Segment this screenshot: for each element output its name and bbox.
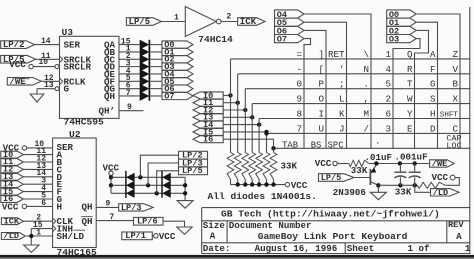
tag O6 (column driver): [275, 26, 305, 36]
power VCC at clamp diodes: [103, 162, 120, 193]
svg-text:VCC: VCC: [291, 180, 308, 191]
svg-text:U2: U2: [69, 129, 81, 140]
label box LP/2: [179, 151, 208, 161]
svg-text:LOC: LOC: [446, 141, 461, 151]
svg-text:3: 3: [385, 123, 391, 134]
label 33K for R8: [351, 165, 368, 176]
svg-text:I6: I6: [203, 135, 213, 145]
junction I4 on vertical: [257, 122, 261, 126]
wire clamp row 3: [111, 192, 185, 194]
svg-text:SHFT: SHFT: [440, 112, 459, 120]
wire U2 /QH pin 7: [96, 213, 133, 222]
resistor R4 33K pull-up: [249, 153, 256, 185]
svg-text:TAB: TAB: [282, 140, 298, 150]
svg-text:N: N: [363, 64, 369, 75]
wire tap to LP/2 box: [140, 155, 178, 177]
tag I3 (U2 input D): [1, 172, 24, 182]
power VCC at U3 SRCLR: [9, 59, 33, 70]
tag I1 (U2 input B): [1, 157, 24, 167]
junction clamp VCC row1: [109, 175, 113, 179]
svg-text:R: R: [407, 64, 413, 75]
wire I2 to pin 13: [23, 162, 52, 171]
wire U3 QE pin 4: [119, 67, 141, 76]
wire U3 QG pin 6: [119, 81, 141, 90]
junction LP/2 tap: [138, 175, 142, 179]
diode D1 (series 1N4001 on O0): [140, 40, 149, 50]
svg-text:G: G: [430, 79, 436, 90]
svg-text:LP/1: LP/1: [125, 231, 146, 241]
tag /LD (output): [431, 188, 460, 198]
title block size value A: [210, 231, 216, 242]
svg-text:6: 6: [385, 109, 391, 120]
svg-text:VCC: VCC: [159, 231, 176, 242]
svg-text:VCC: VCC: [432, 172, 449, 183]
junction row6 fan: [264, 131, 268, 135]
wire matrix row 7 (net I6): [274, 147, 471, 149]
svg-text:2: 2: [227, 13, 232, 22]
svg-text:A: A: [430, 49, 436, 60]
label box LP/5: [179, 166, 208, 176]
diode D4 (series 1N4001 on O3): [140, 62, 149, 72]
svg-text:1: 1: [465, 243, 471, 254]
wire U2 QH pin 9: [96, 200, 119, 209]
svg-text:O7: O7: [277, 35, 287, 45]
junction I1 on vertical: [236, 101, 240, 105]
wire matrix row 2 (net I1): [238, 73, 471, 75]
tag O3 (column driver): [387, 35, 417, 45]
svg-text:2N3906: 2N3906: [333, 187, 366, 198]
tag LP/3 (U2 QH out): [119, 203, 154, 213]
tag O7: [162, 91, 193, 101]
tag O2 (column driver): [387, 26, 417, 36]
inverter U1 74HC14: [185, 7, 233, 46]
svg-text:QH: QH: [104, 91, 115, 102]
svg-text:1 of: 1 of: [408, 243, 431, 254]
resistor R3 33K pull-up: [242, 153, 249, 185]
svg-text:.001uF: .001uF: [395, 152, 428, 163]
tag O3: [162, 62, 193, 72]
junction I5 on vertical: [264, 130, 268, 134]
svg-text:9: 9: [127, 103, 132, 112]
wire LP/5 to SRCLK pin 11: [36, 52, 60, 61]
svg-text:E: E: [407, 123, 413, 134]
title block Sheet label: [347, 243, 375, 254]
svg-text:O7: O7: [164, 91, 174, 101]
wire I3 to pin 14: [23, 169, 52, 178]
wire fan verticals rows to pull-ups: [231, 59, 274, 153]
svg-text:5: 5: [385, 79, 391, 90]
svg-text:7: 7: [296, 123, 302, 134]
tag ICK (inverter output): [238, 17, 266, 27]
svg-text:O: O: [318, 94, 324, 105]
svg-text:VCC: VCC: [103, 162, 120, 173]
wire U3 QH' pin 9: [119, 103, 144, 112]
svg-text:LP/6: LP/6: [137, 217, 158, 227]
wire tag I6 to row 7: [223, 139, 273, 148]
svg-text:33K: 33K: [281, 161, 298, 172]
wire LD tap: [415, 185, 431, 192]
tag LP/2 (U3 SER): [1, 40, 35, 50]
wire VCC to SRCLR pin 10 with bubble: [33, 58, 59, 68]
svg-text:QH: QH: [81, 202, 92, 213]
svg-text:33K: 33K: [351, 165, 368, 176]
wire diode D7 to tag O6: [150, 88, 162, 90]
power VCC at U2 SER: [3, 142, 27, 153]
resistor R7 33K pull-up: [270, 153, 277, 185]
tag I0 (U2 input A): [1, 150, 24, 160]
svg-text:GameBoy Link Port Keyboard: GameBoy Link Port Keyboard: [258, 231, 408, 242]
wire O5 to column RET: [304, 22, 347, 148]
wire O6 to column ']': [304, 30, 326, 148]
svg-text:10: 10: [39, 58, 49, 67]
svg-text:LP/5: LP/5: [129, 17, 151, 27]
svg-text:2: 2: [385, 94, 391, 105]
wire I0 to pin 11: [23, 147, 52, 156]
wire tag I2 to fan vertical: [223, 109, 245, 111]
scan artifact bottom black strip: [0, 255, 474, 259]
tag O0: [162, 40, 193, 50]
tag I6 (U2 input G): [1, 194, 24, 204]
tag /WE (U3 RCLK): [7, 77, 41, 87]
tag I6 (row sense): [193, 135, 223, 145]
svg-text:S: S: [430, 94, 436, 105]
title block date value: [255, 243, 338, 254]
wire bottom rail: [378, 184, 417, 186]
ground at clamp diodes: [177, 201, 193, 209]
junction Q1 emitter: [374, 161, 378, 165]
wire LP/1 to VCC: [152, 231, 176, 242]
svg-text:U3: U3: [62, 27, 74, 38]
wire inverter pin 2 to ICK: [221, 13, 238, 22]
capacitor C1 .01uF: [394, 164, 406, 186]
power VCC at R9: [432, 172, 456, 183]
svg-text:-: -: [296, 64, 302, 75]
wire G pin 13 with bubble: [37, 81, 59, 94]
wire U3 QD pin 3: [119, 59, 141, 68]
tag O6: [162, 84, 193, 94]
wire pull-up common bus: [231, 182, 286, 186]
svg-text:14: 14: [41, 37, 51, 46]
svg-text:Sheet: Sheet: [347, 243, 375, 254]
svg-text:U: U: [318, 123, 324, 134]
svg-text:Q: Q: [407, 49, 413, 60]
wire tag I0 to fan vertical: [223, 94, 230, 96]
tag O4 (column driver): [275, 10, 305, 20]
svg-text:=: =: [296, 49, 302, 60]
diode D2 (series 1N4001 on O1): [140, 47, 149, 57]
ground at Q1 collector: [370, 192, 386, 199]
tag /LD (U2 load): [1, 231, 25, 241]
wire O3 to column '1': [393, 39, 420, 149]
junction clamp gnd row2: [183, 183, 187, 187]
svg-text:O3: O3: [389, 35, 399, 45]
svg-text:6: 6: [41, 199, 46, 208]
svg-text:Z: Z: [452, 49, 458, 60]
tag I4 (U2 input E): [1, 179, 24, 189]
wire I4 to pin 3: [23, 177, 52, 186]
svg-text:Document Number: Document Number: [229, 220, 312, 231]
wire diode D8 to tag O7: [150, 95, 162, 97]
wire /LD to SH/LD pin 1: [26, 228, 52, 237]
diode D7 (series 1N4001 on O6): [140, 84, 149, 94]
title block Size header: [203, 220, 226, 231]
svg-text:SPC: SPC: [328, 140, 344, 150]
svg-text:LP/5: LP/5: [321, 173, 342, 183]
svg-text:Y: Y: [407, 109, 413, 120]
tag I5 (row sense): [193, 127, 223, 137]
resistor R8 33K: [349, 160, 369, 166]
tag I4 (row sense): [193, 120, 223, 130]
svg-text:/: /: [363, 123, 369, 134]
diodes D9-D11 clamp to VCC: [126, 171, 134, 198]
title block text GB Tech: [221, 209, 440, 220]
power VCC at U2 H: [2, 202, 27, 213]
diode D3 (series 1N4001 on O2): [140, 54, 149, 64]
IC U3 74HC595 shift register body: [60, 27, 120, 127]
svg-text:SER: SER: [64, 40, 81, 51]
svg-text:1: 1: [36, 228, 41, 237]
svg-text:\: \: [363, 49, 369, 60]
wire matrix row 1 (net I0): [231, 58, 471, 60]
svg-text:B: B: [452, 79, 458, 90]
wire VCC to R8: [337, 163, 349, 165]
tag ICK (U2 clock): [1, 216, 23, 226]
svg-text:4: 4: [385, 64, 391, 75]
junction Q1 collector: [376, 183, 380, 187]
svg-text:J: J: [339, 123, 345, 134]
resistor R5 33K pull-up: [256, 153, 263, 185]
title block frame: [202, 208, 471, 254]
tag O7 (column driver): [275, 35, 305, 45]
wire O1 to column 'A': [416, 22, 438, 148]
tag O5 (column driver): [275, 18, 305, 28]
resistor R9 33K: [417, 182, 445, 188]
junction /LD-INH: [29, 234, 33, 238]
wire tap to LP/5 box: [157, 171, 179, 194]
wire matrix row 6 (net I5): [267, 132, 471, 134]
junction C2 bottom / LD tap: [413, 183, 417, 187]
tag I1 (row sense): [193, 98, 223, 108]
diode anode bus line: [139, 40, 141, 101]
tag LP/5 (Q1 base): [319, 173, 355, 183]
title block sheet 1 of: [408, 243, 431, 254]
tag LP/5 (U3 SRCLK): [1, 55, 36, 65]
svg-text:P: P: [318, 79, 324, 90]
resistor R1 33K pull-up: [227, 153, 234, 185]
wire diode D3 to tag O2: [150, 58, 162, 60]
svg-text:VCC: VCC: [2, 202, 19, 213]
svg-text:0: 0: [296, 79, 302, 90]
svg-text:LP/3: LP/3: [121, 203, 142, 213]
wire tag I5 to fan vertical: [223, 131, 266, 133]
wire matrix row 4 (net I3): [252, 103, 470, 105]
svg-text:SH/LD: SH/LD: [57, 231, 85, 242]
title block Document Number header: [229, 220, 312, 231]
svg-text:A: A: [456, 231, 462, 242]
svg-text:G: G: [64, 84, 70, 95]
tag O1: [162, 47, 193, 57]
sheet border right edge: [469, 7, 471, 254]
wire O4 to column '\': [304, 14, 371, 148]
wire matrix row 3 (net I2): [245, 88, 470, 90]
wire O2 to column 'Q': [415, 30, 429, 148]
svg-text:QH’: QH’: [98, 105, 115, 116]
label .01uF: [365, 152, 393, 163]
wire tag I1 to fan vertical: [223, 102, 238, 104]
wire I6 to pin 5: [23, 191, 52, 200]
wire top rail to /WE tag: [369, 163, 430, 165]
wire tag I4 to fan vertical: [223, 124, 259, 126]
svg-text:;: ;: [339, 79, 345, 90]
svg-text:LP/5: LP/5: [182, 166, 203, 176]
power VCC at pull-up bus: [285, 180, 308, 191]
wire O0 to column 'Z': [416, 14, 460, 148]
svg-text:ICK: ICK: [240, 17, 257, 27]
svg-text:A: A: [210, 231, 216, 242]
svg-text:]: ]: [318, 49, 324, 60]
svg-text:7: 7: [126, 89, 131, 98]
title block sheet total 1: [465, 243, 471, 254]
wire diode D4 to tag O3: [150, 66, 162, 68]
wire U3 QF pin 5: [119, 74, 141, 83]
junction C2 top: [413, 161, 417, 165]
svg-text:Date:: Date:: [203, 243, 231, 254]
svg-text:GB Tech (http://hiwaay.net/~jf: GB Tech (http://hiwaay.net/~jfrohwei/): [221, 209, 440, 220]
wire I5 to pin 4: [23, 184, 52, 193]
note all diodes 1N4001s: [208, 191, 317, 202]
svg-text:H: H: [430, 109, 436, 120]
wire LP/6 to ground: [163, 221, 185, 227]
junction LP/5 tap: [155, 191, 159, 195]
junction I3 on vertical: [250, 115, 254, 119]
junction LP/3 tap: [146, 183, 150, 187]
diode D8 (series 1N4001 on O7): [140, 91, 149, 101]
svg-text:H: H: [57, 201, 63, 212]
tag O2: [162, 55, 193, 65]
svg-text:BS: BS: [311, 140, 322, 150]
label 33K for pull-up resistors: [281, 161, 298, 172]
svg-text:I: I: [318, 109, 324, 120]
wire tap to LP/3 box: [148, 163, 178, 185]
wire LP/2 to SER pin 14: [35, 37, 60, 46]
wire clamp row 1: [111, 176, 185, 178]
svg-text:1: 1: [385, 49, 391, 60]
wire tag I3 to fan vertical: [223, 116, 252, 118]
label box LP/1: [122, 231, 153, 241]
label box LP/6: [134, 217, 164, 227]
tag I2 (U2 input C): [1, 165, 24, 175]
wire LP/5 to inverter pin 1: [161, 14, 185, 23]
wire diode D1 to tag O0: [150, 44, 162, 46]
svg-text:L: L: [339, 94, 345, 105]
title block REV header: [448, 220, 464, 230]
svg-text:V: V: [452, 64, 458, 75]
transistor Q1 2N3906 PNP: [333, 165, 379, 198]
svg-text:33K: 33K: [395, 186, 412, 197]
diode D5 (series 1N4001 on O4): [140, 69, 149, 79]
wire I1 to pin 12: [23, 154, 52, 163]
svg-text:SRCLR: SRCLR: [64, 62, 92, 73]
wire matrix row 5 (net I4): [259, 118, 470, 120]
svg-text:/LD: /LD: [4, 231, 19, 241]
svg-text:QH: QH: [81, 216, 92, 227]
keyboard matrix key labels: [282, 49, 461, 151]
wire VCC to H pin 6: [27, 199, 53, 208]
wire VCC to SER pin 10: [27, 140, 53, 149]
tag O5: [162, 77, 193, 87]
svg-text:ICK: ICK: [4, 216, 20, 226]
svg-text:K: K: [339, 109, 345, 120]
capacitor C2 .001uF: [409, 164, 421, 186]
svg-text:.: .: [363, 79, 369, 90]
svg-text:All diodes 1N4001s.: All diodes 1N4001s.: [208, 191, 317, 202]
resistor R6 33K pull-up: [263, 153, 270, 185]
power VCC at Q1 emitter pull-up: [315, 158, 337, 169]
svg-text:8: 8: [296, 109, 302, 120]
tag I5 (U2 input F): [1, 187, 24, 197]
label box LP/3: [179, 158, 208, 168]
svg-text:9: 9: [296, 94, 302, 105]
IC U2 74HC165 shift register body: [53, 129, 97, 258]
resistor R2 33K pull-up: [234, 153, 241, 185]
wire U3 QB pin 1: [119, 45, 141, 54]
tag O0 (column driver): [387, 10, 417, 20]
ground at LP/6: [177, 227, 192, 234]
wire clamp rows to ground: [184, 177, 186, 200]
junction I6 row7: [271, 146, 275, 150]
junction C1 top: [398, 161, 402, 165]
svg-text:’: ’: [339, 64, 345, 75]
svg-text:1: 1: [174, 14, 179, 23]
wire O7 to column '=': [304, 39, 311, 149]
wire diode D6 to tag O5: [150, 80, 162, 82]
svg-text:.01uF: .01uF: [365, 152, 393, 163]
tag O1 (column driver): [387, 18, 417, 28]
wire U3 QH pin 7: [119, 89, 141, 98]
wire diode D5 to tag O4: [150, 73, 162, 75]
wire clamp row 2: [111, 184, 185, 186]
svg-text:.: .: [375, 136, 381, 147]
wire INH pin 15: [31, 221, 52, 245]
svg-text:VCC: VCC: [315, 158, 332, 169]
svg-text:13: 13: [44, 81, 54, 90]
svg-text:7: 7: [110, 213, 115, 222]
tag I0 (row sense): [193, 91, 223, 101]
svg-text:X: X: [452, 94, 458, 105]
wire ICK to CLK pin 2: [23, 213, 52, 222]
title block document title: [258, 231, 408, 242]
ground at U3 G pin: [30, 94, 44, 102]
svg-text:74HC595: 74HC595: [64, 116, 105, 127]
title block Date label: [203, 243, 231, 254]
svg-text:F: F: [430, 64, 436, 75]
diode D6 (series 1N4001 on O5): [140, 77, 149, 87]
tag LP/5 (inverter input): [126, 17, 161, 27]
wire R9 to VCC: [445, 178, 459, 186]
svg-text:M: M: [363, 109, 369, 120]
title block rev value A: [456, 231, 462, 242]
svg-text:LP/2: LP/2: [3, 40, 25, 50]
svg-text:D: D: [430, 123, 436, 134]
label 33K for R9: [395, 186, 412, 197]
diodes D12-D14 clamp to GND: [162, 171, 171, 198]
svg-text:[: [: [318, 64, 324, 75]
tag O4: [162, 69, 193, 79]
wire /WE to RCLK pin 12: [41, 74, 59, 83]
svg-text:RET: RET: [328, 49, 345, 60]
wire LP/5 to Q1 base: [354, 177, 370, 179]
junction I0 on vertical: [228, 93, 232, 97]
